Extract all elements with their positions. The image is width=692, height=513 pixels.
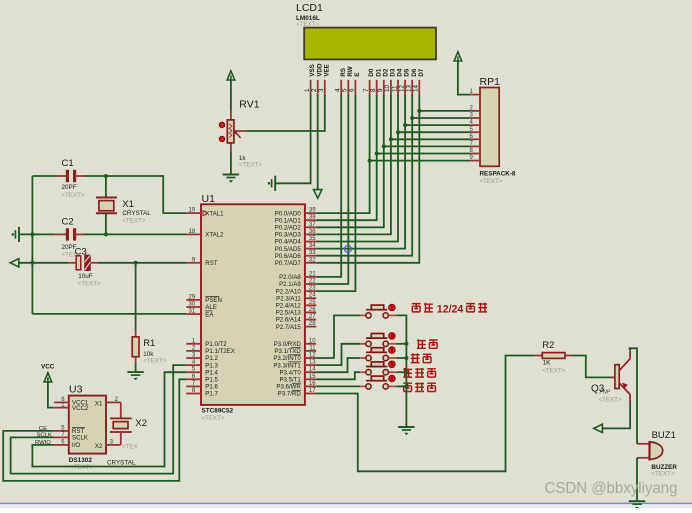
svg-text:P2.0/A8: P2.0/A8 [279,274,301,281]
wire crystal to X2 pin [120,432,122,445]
svg-text:P1.2: P1.2 [205,355,218,362]
vertical wire C1-C2-C3-EA [31,176,33,314]
microcontroller U1 right pins [273,208,316,398]
svg-text:P3.1/TXD: P3.1/TXD [274,348,301,355]
svg-text:R1: R1 [143,338,155,349]
respack RP1 label [480,76,501,88]
wire D7 to P0.7/AD7 [316,95,419,263]
junction X1/C2 [104,232,108,236]
transistor Q3 labels [591,384,622,404]
svg-text:P2.1/A9: P2.1/A9 [279,281,301,288]
capacitor C3 labels [75,246,101,287]
svg-text:19: 19 [189,208,196,214]
wire C1 right to XTAL1 [84,176,186,213]
svg-text:P2.2/A10: P2.2/A10 [276,288,302,295]
svg-text:X2: X2 [135,418,147,429]
capacitor C2 labels [62,217,78,259]
wire D5 to P0.5/AD5 [316,95,405,249]
rtc U3 value DS1302 [69,457,94,471]
svg-text:RESPACK-8: RESPACK-8 [480,171,516,178]
junction D7/RP1 [417,109,421,113]
svg-text:RP1: RP1 [480,76,501,88]
wire RW to P2.1/A9 [316,95,348,284]
ground (keys) [398,427,414,435]
label 设置键 [403,382,436,391]
svg-text:P3.6/WR: P3.6/WR [276,384,301,391]
svg-text:ALE: ALE [205,304,217,311]
svg-text:10: 10 [309,338,316,344]
microcontroller U1 label [202,193,216,205]
svg-text:35: 35 [309,236,316,242]
wire D0 to P0.0/AD0 [316,95,369,213]
wire SCLK to P1.3 [11,365,187,474]
svg-text:12/24: 12/24 [437,304,464,316]
wire C2 right to XTAL2 [84,233,186,235]
svg-text:C3: C3 [75,246,87,257]
svg-text:P0.2/AD2: P0.2/AD2 [275,225,302,232]
svg-text:LCD1: LCD1 [296,2,323,14]
svg-text:D7: D7 [418,68,425,76]
svg-text:29: 29 [189,294,196,300]
svg-text:P3.0/RXD: P3.0/RXD [274,341,302,348]
crystal X2 labels [107,418,147,467]
transistor Q3 (PNP) [611,350,631,403]
svg-text:P2.7/A15: P2.7/A15 [276,324,302,331]
svg-text:22: 22 [309,279,316,285]
svg-text:<TEXT>: <TEXT> [542,367,565,374]
junction D6/RP1 [410,116,414,120]
wire P3.4/T0 to key3 [316,358,360,372]
terminal (C3 row, left arrow) [10,259,19,267]
microcontroller U1 left pins [186,208,234,398]
junction D5/RP1 [403,123,407,127]
microcontroller U3 label [69,384,83,396]
svg-text:<TEXT>: <TEXT> [239,162,262,169]
power terminal (RV1 VCC) [227,71,235,80]
svg-text:EA: EA [205,311,214,318]
svg-text:P3.7/RD: P3.7/RD [278,391,302,398]
svg-text:X2: X2 [95,443,103,450]
wire RST to R1 [135,263,137,331]
svg-text:25: 25 [309,300,316,306]
wire key2 to common [396,343,406,345]
svg-text:<TEXT>: <TEXT> [599,396,622,403]
svg-text:VCC: VCC [41,363,55,370]
svg-text:<TEX: <TEX [122,444,138,451]
svg-text:RST: RST [205,260,217,267]
wire Q3 emitter [602,404,630,429]
wire P3.6/WR to key5 [316,385,360,387]
svg-text:XTAL2: XTAL2 [205,232,224,239]
svg-text:BUZ1: BUZ1 [652,430,676,441]
svg-text:14: 14 [309,367,316,373]
wire D6 to P0.6/AD6 [316,95,412,256]
svg-text:<TEXT>: <TEXT> [202,415,225,422]
svg-text:23: 23 [309,286,316,292]
capacitor C1 [57,170,85,182]
svg-text:VDD: VDD [316,63,323,77]
wire E to P2.2/A10 [316,95,355,291]
svg-text:U3: U3 [69,384,83,396]
label 减键 [417,339,438,348]
svg-text:<TEXT>: <TEXT> [122,217,145,224]
microcontroller U1 value STC89C52 [202,408,234,423]
svg-text:D4: D4 [397,68,404,76]
wire X1 bottom [105,213,107,234]
svg-text:17: 17 [309,388,316,394]
potentiometer RV1 labels [239,98,262,168]
svg-text:<TEXT>: <TEXT> [70,464,93,471]
svg-text:P1.7: P1.7 [205,391,218,398]
wire I/O to P1.4 [32,372,186,466]
LCD LCD1 label [296,2,323,28]
wire X1 top [105,176,107,198]
respack RP1 text [480,178,503,185]
wire keys common [396,315,406,426]
svg-text:38: 38 [309,215,316,221]
rtc U3 body [69,396,106,454]
junction D4/RP1 [396,130,400,134]
ground (RV1) [223,175,239,183]
wire D3 branch to RP1 pin 6 [391,138,470,140]
svg-text:PNP: PNP [600,389,611,395]
node marker (blue circle) [345,246,352,253]
svg-text:32: 32 [309,257,316,263]
svg-text:R2: R2 [542,340,554,351]
svg-text:D6: D6 [411,68,418,76]
wire RV1 top [230,80,232,111]
wire key3 to common [396,357,406,359]
svg-text:P1.1/T2EX: P1.1/T2EX [205,348,234,355]
svg-text:CRYSTAL: CRYSTAL [107,459,136,466]
wire CE to P1.5 [3,379,186,481]
svg-text:11: 11 [309,345,316,351]
svg-text:30: 30 [189,302,196,308]
power terminal (RP1 VCC) [454,52,462,61]
svg-text:<TEXT>: <TEXT> [62,192,85,199]
respack RP1 value RESPACK-8 [480,171,516,178]
push button (select key) [360,361,396,375]
wire R1 bottom [135,363,137,372]
wire D5 branch to RP1 pin 4 [405,124,470,126]
resistor R1 [132,331,139,363]
svg-text:X1: X1 [95,401,103,408]
buzzer BUZ1 [637,441,663,461]
svg-text:20PF: 20PF [62,184,77,191]
ground (LCD VSS) [268,176,275,191]
junction key4 [404,370,408,374]
wire C1 left [32,175,58,177]
crystal X2 [110,418,132,432]
svg-text:P0.3/AD3: P0.3/AD3 [275,232,302,239]
capacitor C2 [55,228,84,240]
svg-text:12: 12 [309,353,316,359]
svg-text:PSEN: PSEN [205,297,222,304]
wire D1 branch to RP1 pin 8 [377,153,471,155]
power label VCC [41,363,55,370]
svg-text:P3.2/INT0: P3.2/INT0 [273,355,301,362]
wire D1 to P0.1/AD1 [316,95,377,220]
crystal X1 [96,198,117,214]
svg-text:DS1302: DS1302 [69,457,93,464]
wire D2 branch to RP1 pin 7 [384,145,471,147]
svg-text:E: E [354,72,361,76]
wire VCC to VCC2 [48,382,54,408]
svg-text:VEE: VEE [323,64,330,76]
junction key2 [404,342,408,346]
svg-text:C1: C1 [62,158,74,169]
svg-text:RW: RW [347,66,354,76]
wire P3.3/INT1 to key2 [316,344,360,365]
svg-text:VSS: VSS [309,64,316,76]
svg-text:P0.5/AD5: P0.5/AD5 [275,246,302,253]
wire D2 to P0.2/AD2 [316,95,384,227]
wire VSS to ground [275,95,310,183]
junction key3 [404,356,408,360]
buzzer BUZ1 label [652,430,676,441]
wire D4 branch to RP1 pin 5 [398,131,470,133]
microcontroller U1 body [201,204,305,405]
svg-text:P3.3/INT1: P3.3/INT1 [273,362,301,369]
svg-text:28: 28 [309,321,316,327]
push button (minus key) [360,333,396,347]
wire C3 right to RST [99,262,187,264]
buzzer BUZ1 value [651,464,677,477]
svg-text:P2.3/A11: P2.3/A11 [276,295,301,302]
capacitor C3 (polarized) [68,255,99,271]
ground (C2 row) [12,227,19,242]
LCD pins 1-14 (VSS VDD VEE RS RW E D0-D7) [304,63,425,96]
svg-text:26: 26 [309,307,316,313]
ground (buzzer) [629,501,645,509]
svg-text:15: 15 [309,374,316,380]
svg-text:RV1: RV1 [239,98,259,110]
svg-text:P3.4/T0: P3.4/T0 [279,369,301,376]
wire D6 branch to RP1 pin 3 [412,117,470,119]
terminal (Q3 emitter, left arrow) [594,424,603,432]
wire RV1 bottom [230,152,232,175]
capacitor C1 labels [62,158,85,199]
svg-text:P2.5/A13: P2.5/A13 [276,310,302,317]
svg-text:P1.5: P1.5 [205,377,218,384]
svg-text:U1: U1 [202,193,216,205]
LCD LCD1 screen [304,28,436,60]
power terminal (VCC U3) [44,373,52,382]
junction D1/RP1 [375,152,379,156]
svg-text:D3: D3 [390,68,397,76]
svg-text:21: 21 [309,271,316,277]
junction D0/RP1 [368,159,372,163]
svg-text:D5: D5 [404,68,411,76]
svg-text:CRYSTAL: CRYSTAL [122,210,151,217]
svg-text:16: 16 [309,381,316,387]
rtc U3 left pins [54,397,89,449]
svg-text:D2: D2 [382,68,389,76]
wire D3 to P0.3/AD3 [316,95,391,234]
wire EA row [32,313,186,315]
respack RP1 body [480,88,499,167]
svg-text:P2.4/A12: P2.4/A12 [276,303,302,310]
label 选择键 [403,368,436,377]
svg-text:P1.6: P1.6 [205,384,218,391]
wire D0 branch to RP1 pin 9 [370,160,471,162]
svg-text:39: 39 [309,208,316,214]
junction key5 [404,384,408,388]
svg-text:P0.0/AD0: P0.0/AD0 [275,210,302,217]
svg-text:I/O: I/O [72,442,80,449]
wire terminal to C3 [19,262,68,264]
label 切换12/24进制 [412,303,487,316]
svg-text:P1.4: P1.4 [205,369,218,376]
push button (12/24 switch) [360,304,396,318]
wire D7 branch to RP1 pin 2 [419,110,470,112]
svg-text:C2: C2 [62,217,74,228]
svg-text:XTAL1: XTAL1 [205,210,224,217]
wire P3.5/T1 to key4 [316,372,360,379]
ground (R1) [127,372,143,380]
svg-text:1K: 1K [543,360,552,367]
svg-text:P0.7/AD7: P0.7/AD7 [275,260,302,267]
respack RP1 pins 1-9 [469,89,480,161]
wire VDD down [317,95,319,190]
svg-text:D0: D0 [368,68,375,76]
svg-text:STC89C52: STC89C52 [202,408,234,415]
svg-text:RS: RS [340,68,347,77]
svg-text:<TEXT>: <TEXT> [143,358,166,365]
svg-text:33: 33 [309,250,316,256]
potentiometer RV1 [219,111,245,152]
wire P3.2/INT0 to key1 [316,315,360,358]
svg-text:SCLK: SCLK [72,435,88,442]
junction C3/R1 [134,261,138,265]
svg-text:18: 18 [189,229,196,235]
crystal X1 labels [122,199,151,225]
junction C2 left [30,232,34,236]
wire key5 to common [396,385,406,387]
wire X1 pin to crystal [120,402,122,418]
resistor R2 labels [542,340,565,374]
svg-text:24: 24 [309,293,316,299]
net labels CE SCLK RWIO [35,426,52,446]
svg-text:P1.3: P1.3 [205,362,218,369]
svg-text:CSDN @bbxyliyang: CSDN @bbxyliyang [545,480,678,497]
wire buzzer to ground [636,458,638,501]
wire ground to C2 [19,233,55,235]
power terminal (VDD, down arrow) [314,190,322,199]
svg-text:13: 13 [309,360,316,366]
wire RP1 pin1 to power [458,61,470,95]
svg-text:<TEXT>: <TEXT> [480,178,503,185]
resistor R1 labels [143,338,166,365]
wire Q3 collector to buzzer [629,348,637,444]
svg-text:D1: D1 [375,68,382,76]
wire key4 to common [396,371,406,373]
svg-text:P0.1/AD1: P0.1/AD1 [275,217,302,224]
svg-text:34: 34 [309,243,316,249]
wire VEE to RV1 wiper [245,95,324,131]
push button (plus key) [360,347,396,361]
label 加键 [411,354,432,363]
svg-text:36: 36 [309,229,316,235]
svg-text:31: 31 [189,309,196,315]
svg-text:VCC2: VCC2 [72,405,89,412]
svg-text:27: 27 [309,314,316,320]
svg-text:<TEXT>: <TEXT> [651,471,674,478]
svg-text:P2.6/A14: P2.6/A14 [276,317,302,324]
junction C3 left [30,261,34,265]
svg-text:10uF: 10uF [78,273,93,280]
wire R2 to Q3 base [572,356,611,378]
resistor R2 [535,353,572,359]
junction D2/RP1 [382,144,386,148]
svg-text:X1: X1 [122,199,134,210]
watermark CSDN [545,480,678,497]
wire P3.7/RD to R2 [316,356,535,472]
rtc U3 right pins [95,397,121,450]
junction C1/X1 top [104,174,108,178]
wire D4 to P0.4/AD4 [316,95,398,242]
svg-text:P0.6/AD6: P0.6/AD6 [275,253,302,260]
svg-text:37: 37 [309,222,316,228]
wire RS to P2.0/A8 [316,95,341,277]
svg-text:P1.0/T2: P1.0/T2 [205,341,227,348]
svg-text:<TEXT>: <TEXT> [78,281,101,288]
svg-text:P3.5/T1: P3.5/T1 [279,377,301,384]
svg-text:P0.4/AD4: P0.4/AD4 [275,239,302,246]
junction D3/RP1 [389,137,393,141]
push button (set key) [360,375,396,389]
